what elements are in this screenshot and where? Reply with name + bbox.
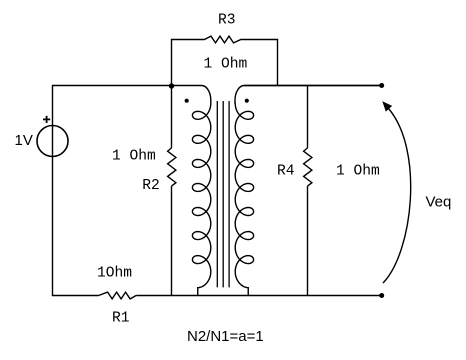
wire bottom rail right [136, 295, 382, 297]
transformer core line 3 [228, 101, 230, 287]
polarity dot secondary [245, 99, 249, 103]
Veq arrow curve [383, 109, 411, 284]
polarity dot primary [185, 99, 189, 103]
resistor R4 zigzag [304, 148, 312, 186]
transformer T1 secondary winding (right) [235, 85, 382, 295]
transformer core line 2 [222, 101, 224, 287]
svg-text:R3: R3 [218, 12, 236, 28]
svg-text:1 Ohm: 1 Ohm [204, 56, 248, 72]
resistor R2 branch: upper wire [171, 86, 173, 148]
wire top-right horizontal [244, 85, 381, 87]
resistor R4 branch: upper wire [307, 86, 309, 148]
svg-text:1V: 1V [15, 132, 33, 149]
resistor R2 zigzag [168, 148, 176, 186]
transformer core line 1 [216, 101, 218, 287]
terminal dot top right [379, 83, 384, 88]
Veq arrowhead [382, 101, 392, 111]
svg-text:1 Ohm: 1 Ohm [336, 164, 380, 180]
wire top-left horizontal + left vertical + rail start [53, 86, 172, 296]
resistor R2 branch: lower wire [171, 186, 173, 295]
svg-text:R1: R1 [112, 311, 130, 327]
voltage source V1 circle [37, 126, 68, 157]
svg-text:R2: R2 [142, 178, 160, 194]
resistor R3 branch with zigzag [172, 36, 278, 85]
svg-text:N2/N1=a=1: N2/N1=a=1 [187, 328, 264, 345]
svg-text:R4: R4 [277, 164, 295, 180]
resistor R1 zigzag [99, 292, 137, 299]
junction dot node A [169, 83, 174, 88]
terminal dot bottom right [379, 293, 384, 298]
transformer T1 primary winding (left) [172, 86, 211, 296]
voltage source plus sign [43, 116, 50, 123]
svg-text:1Ohm: 1Ohm [97, 266, 132, 282]
svg-text:1 Ohm: 1 Ohm [112, 148, 156, 164]
resistor R4 branch: lower wire [307, 186, 309, 295]
svg-text:Veq: Veq [426, 194, 452, 211]
